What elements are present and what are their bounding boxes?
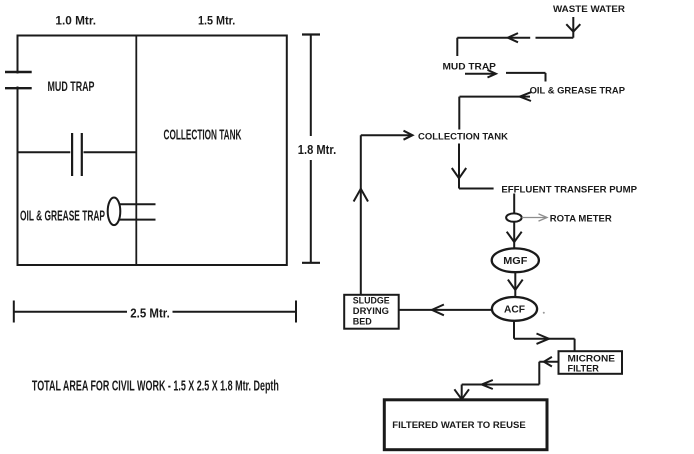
rota meter ellipse	[506, 213, 522, 221]
wire ACF out horizontal to micron filter	[514, 338, 575, 340]
svg-text:ACF: ACF	[504, 304, 526, 316]
arrowhead left on top horizontal wire	[508, 33, 518, 42]
svg-text:WASTE WATER: WASTE WATER	[553, 4, 625, 15]
svg-text:2.5 Mtr.: 2.5 Mtr.	[130, 307, 170, 321]
rota meter pointer line (gray)	[522, 217, 547, 219]
arrowhead down on waste water wire	[566, 24, 580, 32]
wire oil grease trap out horizontal	[460, 96, 531, 98]
width dimension left tick	[13, 301, 15, 323]
wire micron filter out left	[539, 361, 558, 363]
arrowhead down into filtered water box	[454, 389, 469, 399]
wire effluent pump down to rota meter	[513, 194, 515, 214]
tank outline	[18, 36, 287, 266]
svg-text:MUD TRAP: MUD TRAP	[48, 78, 95, 94]
svg-text:SLUDGE: SLUDGE	[353, 295, 390, 305]
wire micron filter down leg	[538, 362, 540, 385]
tank divider wall	[135, 36, 137, 266]
svg-text:OIL & GREASE TRAP: OIL & GREASE TRAP	[530, 86, 626, 97]
svg-text:COLLECTION TANK: COLLECTION TANK	[164, 126, 242, 143]
height dimension line upper segment	[310, 35, 312, 137]
wire ACF to sludge drying bed	[399, 309, 492, 311]
wire top horizontal left segment	[457, 37, 530, 39]
svg-text:BED: BED	[353, 317, 372, 327]
arrowhead left on filtered water wire	[482, 380, 493, 389]
arrowhead right on mud trap out	[488, 70, 496, 78]
wire sludge return into collection tank	[361, 134, 411, 136]
oil grease trap outlet pipe upper line	[118, 203, 156, 205]
arrowhead left out of micron filter	[544, 357, 552, 367]
wire collection tank down	[458, 144, 460, 189]
height dimension top tick	[302, 33, 320, 35]
arrowhead right into collection tank	[404, 131, 413, 140]
wire horizontal to filtered water	[462, 384, 540, 386]
svg-text:ROTA METER: ROTA METER	[550, 213, 612, 224]
wire MGF down to ACF	[514, 272, 516, 297]
arrowhead up on sludge return	[354, 189, 368, 202]
ACF ellipse	[492, 297, 537, 321]
wire down into micron filter	[574, 339, 576, 352]
sludge drying bed box	[344, 295, 399, 329]
svg-text:MGF: MGF	[503, 255, 528, 267]
svg-text:COLLECTION TANK: COLLECTION TANK	[418, 132, 508, 143]
wire waste water down	[572, 17, 574, 38]
micron filter box	[559, 351, 623, 374]
arrowhead down to ACF	[508, 280, 523, 290]
width dimension right tick	[295, 301, 297, 323]
small dot right of ACF	[543, 312, 545, 314]
mud trap baffle lower bar	[5, 87, 32, 89]
partition baffle left bar	[71, 133, 73, 176]
width dimension line right segment	[173, 311, 297, 313]
svg-text:DRYING: DRYING	[353, 306, 389, 316]
filtered water to reuse box	[384, 400, 547, 450]
wire mud trap out arrow	[465, 73, 495, 75]
mud trap baffle upper bar	[5, 71, 32, 73]
arrowhead left to sludge bed	[432, 305, 444, 316]
wire rota meter down to MGF	[513, 222, 515, 249]
height dimension bottom tick	[302, 262, 320, 264]
partition baffle right bar	[81, 133, 83, 176]
oil grease trap pipe ellipse	[108, 198, 121, 226]
MGF ellipse	[492, 248, 539, 272]
arrowhead down below collection tank	[452, 168, 466, 178]
arrowhead left on oil grease out	[520, 92, 531, 101]
wire down to mud trap	[456, 38, 458, 56]
wire to oil grease trap horizontal	[506, 72, 546, 74]
wire to oil grease trap hook down	[545, 73, 547, 82]
partition wall left segment	[18, 151, 71, 153]
wire down to collection tank	[458, 97, 460, 130]
wire ACF down	[513, 321, 515, 339]
svg-text:FILTERED WATER TO REUSE: FILTERED WATER TO REUSE	[392, 420, 525, 431]
svg-text:OIL & GREASE TRAP: OIL & GREASE TRAP	[20, 209, 105, 225]
wire sludge return vertical	[360, 135, 362, 295]
oil grease trap outlet pipe lower line	[118, 219, 156, 221]
partition wall right segment	[84, 151, 137, 153]
svg-text:FILTER: FILTER	[568, 363, 599, 374]
svg-text:1.5 Mtr.: 1.5 Mtr.	[198, 14, 235, 28]
svg-text:EFFLUENT TRANSFER PUMP: EFFLUENT TRANSFER PUMP	[501, 184, 637, 195]
width dimension line left segment	[14, 311, 127, 313]
height dimension line lower segment	[310, 160, 312, 263]
arrowhead down to MGF	[507, 232, 522, 242]
svg-text:TOTAL AREA FOR CIVIL WORK - 1.: TOTAL AREA FOR CIVIL WORK - 1.5 X 2.5 X …	[32, 379, 279, 395]
wire bottom corner to effluent pump	[459, 188, 494, 190]
mud trap wall gap	[15, 74, 21, 87]
svg-text:1.8 Mtr.: 1.8 Mtr.	[298, 143, 336, 157]
wire top horizontal right segment	[536, 37, 574, 39]
arrowhead right gray to rota meter label	[539, 214, 548, 221]
arrowhead right to micron filter	[537, 334, 549, 344]
svg-text:1.0 Mtr.: 1.0 Mtr.	[55, 14, 96, 28]
wire down into filtered water box	[461, 385, 463, 400]
